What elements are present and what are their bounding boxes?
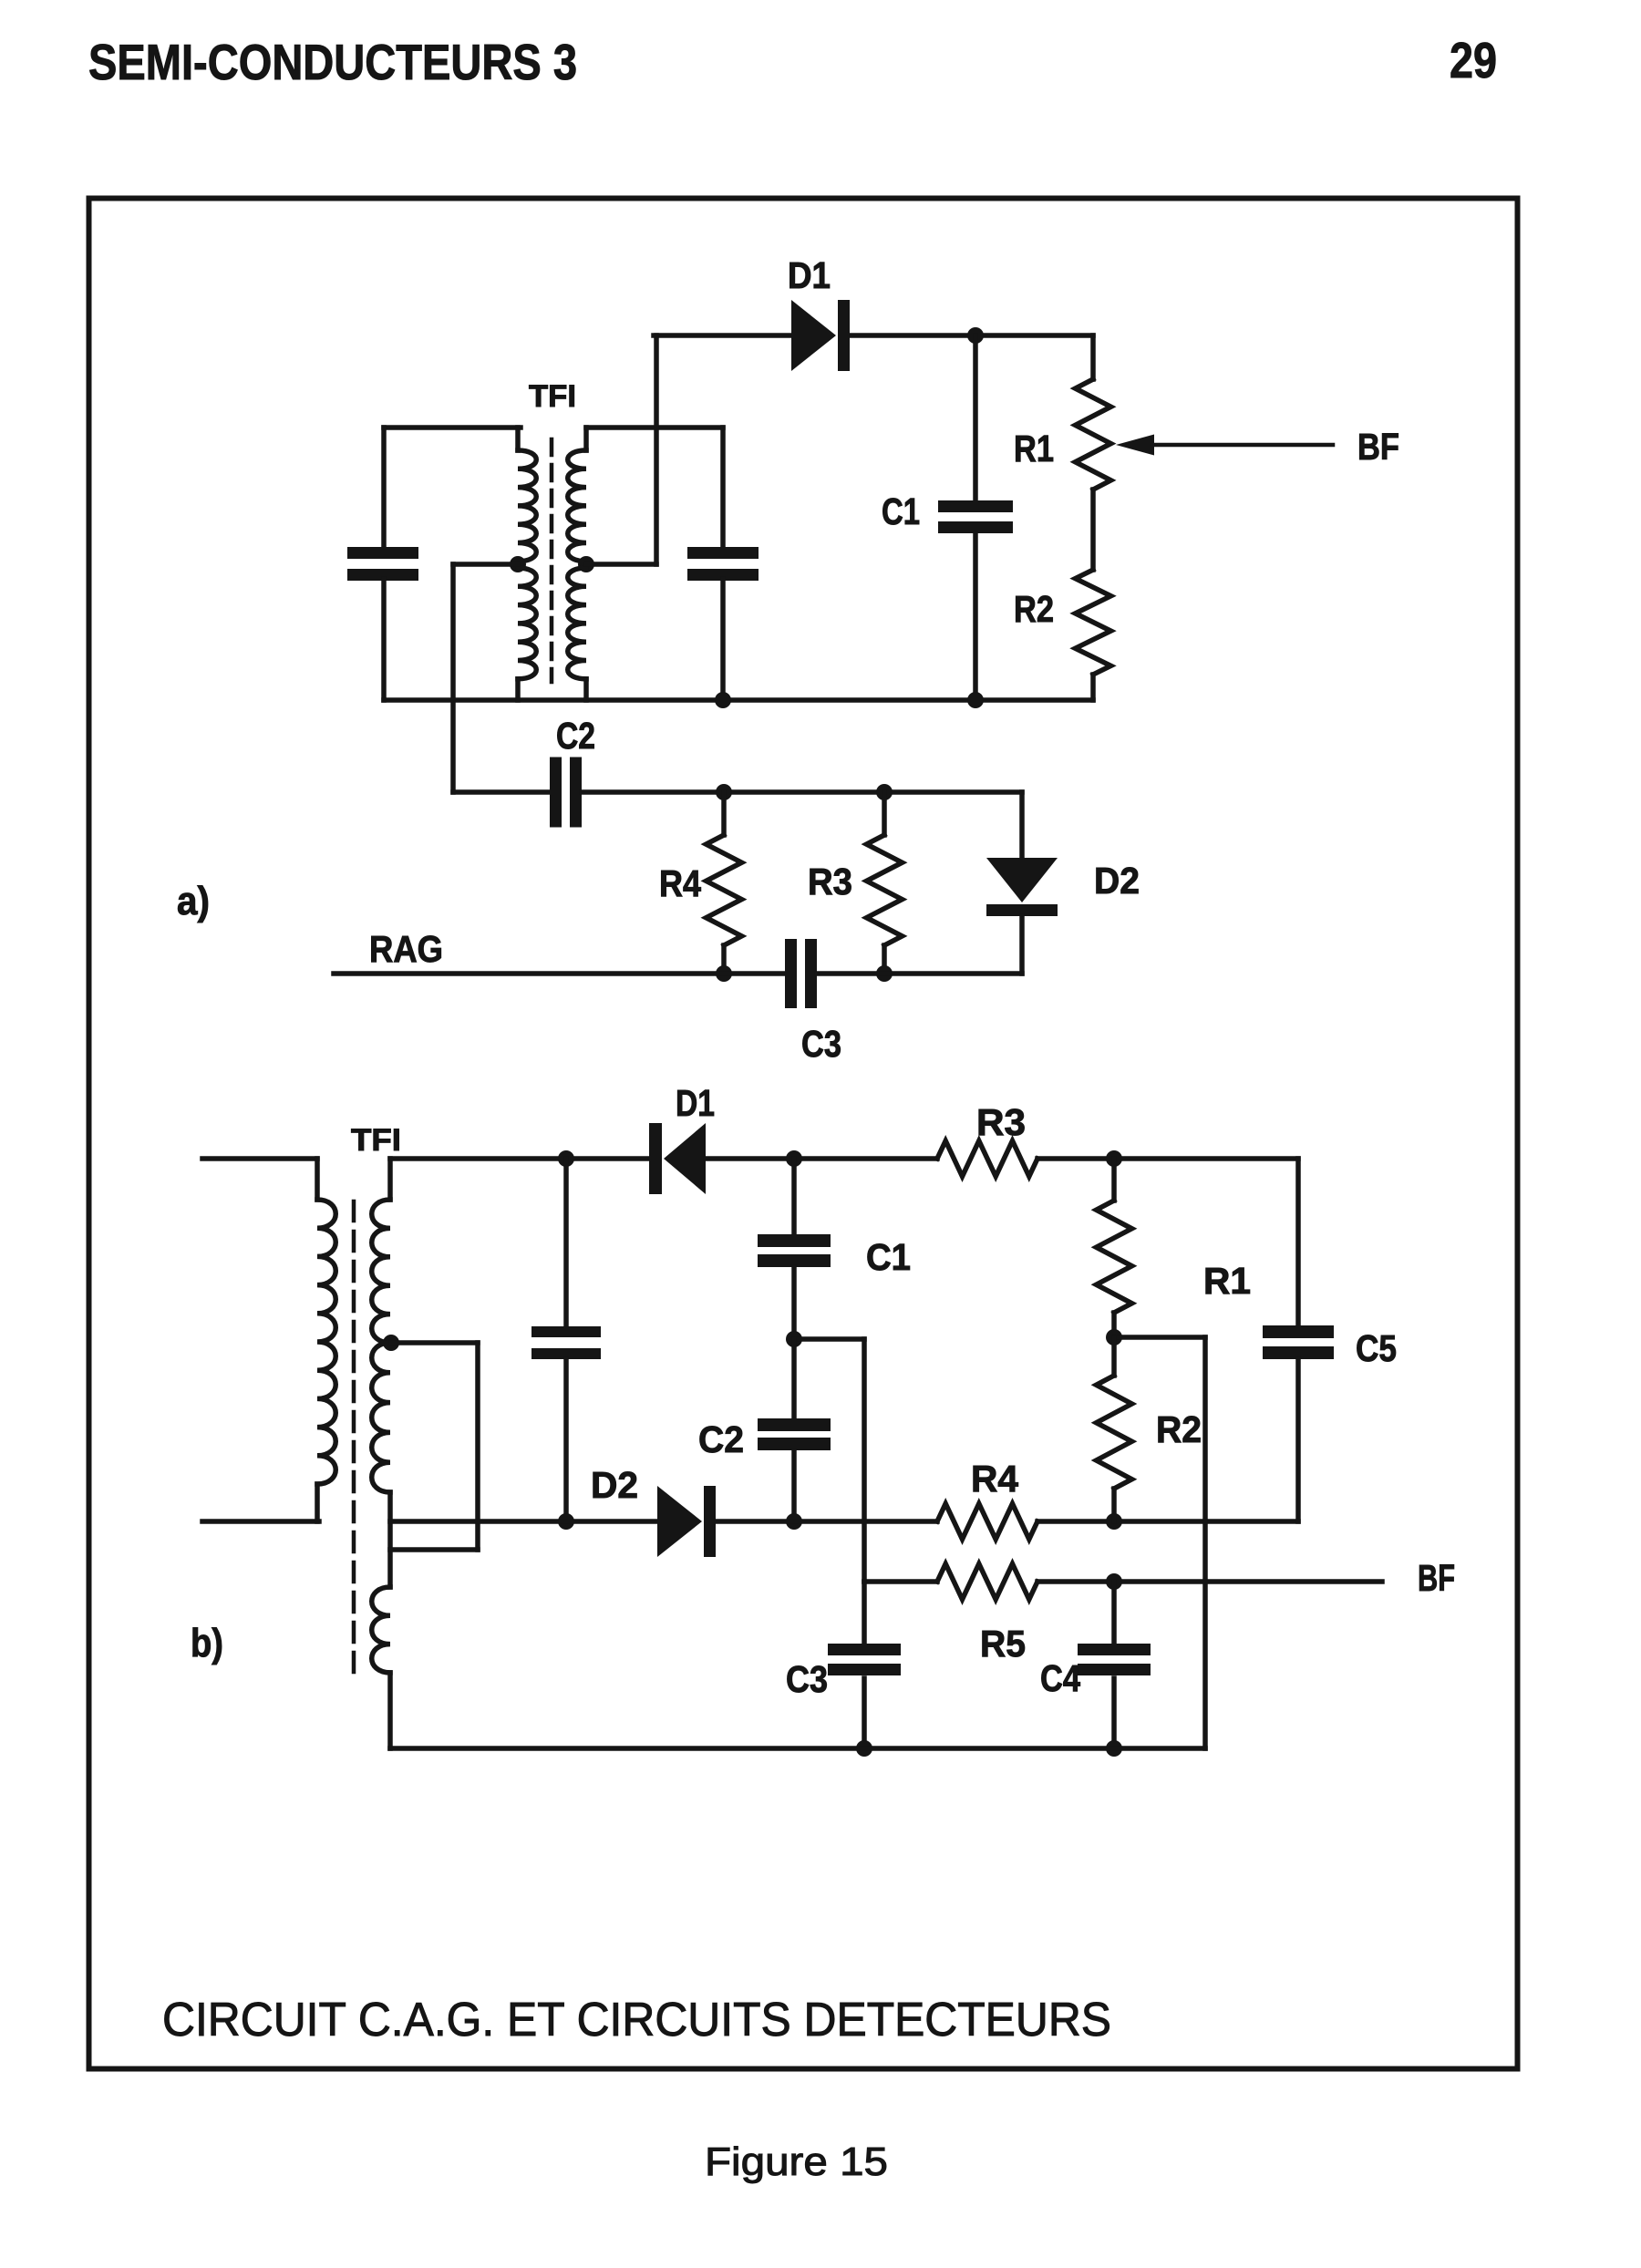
label C1 (b) [866, 1236, 911, 1278]
svg-text:C4: C4 [1040, 1657, 1080, 1699]
wire primary-tank left vertical upper (a) [381, 428, 387, 549]
wire C4 upper lead (b) [1111, 1582, 1117, 1645]
resistor R2 (b) [1097, 1376, 1132, 1489]
svg-text:D2: D2 [1094, 860, 1140, 902]
wire secondary-tank top (a) [586, 425, 723, 430]
capacitor C1 (b) [758, 1234, 831, 1267]
wire secondary bottom to tertiary (b) [387, 1492, 393, 1587]
inductor TFI secondary lower half (a) [568, 568, 586, 700]
figure caption [162, 1994, 1111, 2046]
label R4 (b) [971, 1458, 1018, 1500]
label R1 (a) [1014, 428, 1054, 469]
diode D1 (a) [791, 300, 850, 371]
wire primary bottom stub (b) [315, 1484, 320, 1521]
svg-text:R5: R5 [980, 1623, 1026, 1665]
wire C1 lower lead (b) [791, 1267, 797, 1339]
wire secondary-tank right vertical upper (a) [720, 428, 726, 549]
label R1 (b) [1203, 1260, 1251, 1302]
resistor R1 (b) [1097, 1201, 1132, 1313]
svg-text:SEMI-CONDUCTEURS 3: SEMI-CONDUCTEURS 3 [88, 34, 577, 90]
figure border frame [89, 199, 1518, 2069]
wiper arrow BF (a) [1116, 435, 1333, 456]
node R5 line / C4 junction (b) [1106, 1573, 1122, 1590]
wire R5 line to BF (b) [1037, 1579, 1382, 1584]
node secondary tank / bottom rail junction (a) [715, 692, 731, 708]
wire tank cap upper lead (b) [563, 1159, 569, 1328]
wire primary-tank top (a) [384, 425, 521, 430]
label C5 (b) [1356, 1327, 1397, 1369]
capacitor primary tank (a) [347, 547, 418, 581]
svg-text:D2: D2 [591, 1464, 638, 1506]
wire secondary stub to D2 (b) [390, 1519, 659, 1524]
label R3 (a) [808, 861, 852, 902]
label BF (b) [1418, 1557, 1455, 1599]
wire secondary-tank right vertical lower (a) [720, 579, 726, 700]
svg-text:TFI: TFI [529, 379, 576, 414]
svg-text:R4: R4 [659, 862, 701, 904]
label R2 (a) [1014, 588, 1054, 630]
wire between R1 and R2 (a) [1090, 490, 1096, 570]
svg-text:BF: BF [1418, 1557, 1455, 1599]
wire C1-C2 junction jog to R5 line (b) [794, 1339, 864, 1582]
wire secondary centre tap to D1 branch (a) [586, 335, 656, 564]
transformer core (b) [352, 1201, 356, 1673]
wire R2 top lead (b) [1111, 1337, 1117, 1376]
wire primary top lead (b) [202, 1156, 317, 1161]
wire C2 to AGC network (a) [582, 789, 1022, 795]
svg-text:C1: C1 [866, 1236, 911, 1278]
label TFI (b) [351, 1123, 401, 1158]
wire tank cap lower lead (b) [563, 1359, 569, 1521]
label C1 (a) [882, 490, 920, 532]
svg-text:C1: C1 [882, 490, 920, 532]
wire R2 bottom to rail (a) [1090, 675, 1096, 700]
wire C2 lower lead (b) [791, 1450, 797, 1521]
wire D2 anode lead (a) [1019, 792, 1025, 860]
wire C3 upper lead (b) [862, 1582, 867, 1645]
wire C1 lower lead (a) [973, 533, 978, 700]
node R4 / RAG rail junction (a) [716, 965, 732, 982]
capacitor secondary tank (a) [687, 547, 759, 581]
label R2 (b) [1156, 1408, 1202, 1450]
svg-text:C3: C3 [786, 1658, 828, 1700]
node tank cap top junction (b) [558, 1150, 574, 1167]
svg-text:R1: R1 [1014, 428, 1054, 469]
page number 29 [1450, 32, 1497, 88]
diode D1 (b) [649, 1123, 706, 1194]
diode D2 (b) [657, 1486, 716, 1557]
label C2 (a) [556, 715, 595, 757]
wire top line corner to R1 (a) [1090, 335, 1096, 379]
node R3 / RAG rail junction (a) [876, 965, 893, 982]
resistor R5 (b) [937, 1564, 1037, 1600]
label b) [191, 1621, 223, 1665]
label C3 (a) [801, 1023, 841, 1065]
wire R4 to C5 bottom corner (b) [1037, 1519, 1298, 1524]
node R3 line / R1 junction (b) [1106, 1150, 1122, 1167]
resistor R3 (a) [867, 835, 903, 945]
label R4 (a) [659, 862, 701, 904]
wire primary bottom lead (b) [202, 1519, 319, 1524]
figure number caption [705, 2139, 888, 2184]
label RAG (a) [369, 928, 443, 970]
svg-text:C2: C2 [556, 715, 595, 757]
wire C3 lower lead (b) [862, 1678, 867, 1748]
capacitor C3 (a) [785, 939, 817, 1008]
node C3 / bottom rail junction (b) [856, 1740, 872, 1757]
wire bottom rail (b) [390, 1746, 1205, 1751]
wire C1 upper lead (a) [973, 335, 978, 502]
capacitor C3 (b) [828, 1644, 901, 1675]
resistor R1 (a) [1076, 379, 1111, 490]
wire C2 upper lead (b) [791, 1339, 797, 1420]
label D2 (a) [1094, 860, 1140, 902]
wire primary-tank left vertical lower (a) [381, 579, 387, 700]
node C2 line / R3 junction (a) [876, 784, 893, 800]
wire R3 to C5 corner (b) [1037, 1156, 1298, 1161]
label C3 (b) [786, 1658, 828, 1700]
svg-text:BF: BF [1357, 426, 1399, 468]
node TFI secondary centre tap (b) [383, 1335, 399, 1351]
label TFI (a) [529, 379, 576, 414]
label BF (a) [1357, 426, 1399, 468]
svg-text:CIRCUIT C.A.G. ET CIRCUITS DET: CIRCUIT C.A.G. ET CIRCUITS DETECTEURS [162, 1994, 1111, 2046]
wire C5 lower lead (b) [1295, 1359, 1301, 1521]
svg-text:R2: R2 [1014, 588, 1054, 630]
node R1 R2 junction (b) [1106, 1329, 1122, 1345]
wire R3 top lead (a) [882, 792, 887, 835]
wire tertiary bottom stub (b) [387, 1673, 393, 1748]
label R3 (b) [976, 1101, 1026, 1143]
node TFI secondary centre tap (a) [578, 556, 594, 572]
label D1 (a) [788, 254, 831, 296]
inductor TFI primary upper half (a) [518, 428, 536, 562]
svg-text:Figure 15: Figure 15 [705, 2139, 888, 2184]
wire D2 cathode lead (a) [1019, 916, 1025, 974]
svg-text:a): a) [177, 879, 210, 923]
wire C5 upper lead (b) [1295, 1159, 1301, 1327]
wire R2 bottom lead (b) [1111, 1489, 1117, 1521]
wire R3 bottom lead (a) [882, 945, 887, 974]
wire secondary top to D1 (b) [390, 1156, 651, 1161]
wire C1 upper lead (b) [791, 1159, 797, 1236]
node C2 line / R4 junction (a) [716, 784, 732, 800]
capacitor C5 (b) [1263, 1325, 1334, 1359]
svg-text:29: 29 [1450, 32, 1497, 88]
diode D2 (a) [986, 858, 1058, 916]
inductor TFI secondary lower half (b) [372, 1343, 390, 1492]
svg-text:D1: D1 [788, 254, 831, 296]
svg-text:D1: D1 [676, 1082, 715, 1124]
inductor TFI secondary upper half (b) [372, 1159, 390, 1343]
node D1 line / C1 junction (b) [786, 1150, 802, 1167]
wire C4 lower lead (b) [1111, 1678, 1117, 1748]
node R4 line / R2 junction (b) [1106, 1513, 1122, 1530]
label D1 (b) [676, 1082, 715, 1124]
svg-text:C3: C3 [801, 1023, 841, 1065]
wire R5 line left segment (b) [864, 1579, 937, 1584]
page header title [88, 34, 577, 90]
wire R4 top lead (a) [721, 792, 727, 835]
svg-text:R1: R1 [1203, 1260, 1251, 1302]
node C1 / bottom rail junction (a) [967, 692, 984, 708]
node top line / C1 junction (a) [967, 327, 984, 344]
capacitor C2 (b) [758, 1418, 831, 1450]
wire primary centre tap toward C2 (a) [453, 564, 551, 792]
svg-text:R3: R3 [976, 1101, 1026, 1143]
wire top detector line (a) [654, 333, 1093, 338]
wire RAG rail right of C3 (a) [817, 971, 1022, 976]
wire bottom rail (a) [384, 697, 1093, 703]
wire RAG rail left of C3 (a) [334, 971, 785, 976]
resistor R2 (a) [1076, 570, 1111, 675]
capacitor C4 (b) [1078, 1644, 1151, 1675]
wire D2 to R4 (b) [717, 1519, 937, 1524]
inductor TFI primary lower half (a) [518, 568, 536, 700]
node C1 C2 junction (b) [786, 1331, 802, 1347]
node C2 / D2 line junction (b) [786, 1513, 802, 1530]
transformer core (a) [550, 439, 554, 682]
resistor R4 (a) [707, 835, 742, 945]
wire R1 top lead (b) [1111, 1159, 1117, 1201]
wire D1 to R3 line (b) [706, 1156, 937, 1161]
inductor TFI primary (b) [317, 1159, 335, 1484]
svg-text:TFI: TFI [351, 1123, 401, 1158]
svg-text:RAG: RAG [369, 928, 443, 970]
node C4 / bottom rail junction (b) [1106, 1740, 1122, 1757]
label C2 (b) [698, 1418, 744, 1460]
svg-text:R2: R2 [1156, 1408, 1202, 1450]
label a) [177, 879, 210, 923]
wire R1-R2 junction to right branch (b) [1114, 1337, 1205, 1748]
wire centre tap jog (b) [390, 1343, 478, 1550]
inductor TFI secondary upper half (a) [568, 428, 586, 562]
node TFI primary centre tap (a) [510, 556, 526, 572]
resistor R4 (b) [937, 1504, 1037, 1540]
label D2 (b) [591, 1464, 638, 1506]
svg-text:R4: R4 [971, 1458, 1018, 1500]
resistor R3 (b) [937, 1141, 1037, 1177]
label C4 (b) [1040, 1657, 1080, 1699]
node tank cap / D2 line junction (b) [558, 1513, 574, 1530]
svg-text:C5: C5 [1356, 1327, 1397, 1369]
capacitor C1 (a) [938, 500, 1013, 533]
svg-text:R3: R3 [808, 861, 852, 902]
wire R4 bottom lead (a) [721, 945, 727, 974]
svg-text:C2: C2 [698, 1418, 744, 1460]
wire R1 bottom lead (b) [1111, 1313, 1117, 1337]
svg-text:b): b) [191, 1621, 223, 1665]
capacitor secondary tank (b) [532, 1326, 601, 1359]
capacitor C2 (a) [550, 758, 582, 828]
inductor TFI tertiary winding (b) [372, 1587, 390, 1673]
label R5 (b) [980, 1623, 1026, 1665]
